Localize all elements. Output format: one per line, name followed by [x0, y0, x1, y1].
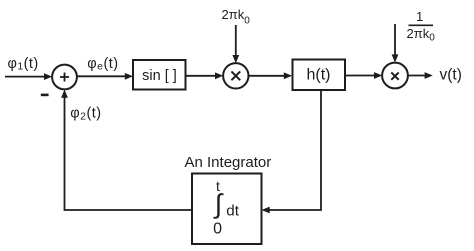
svg-text:2πk0: 2πk0 — [407, 26, 436, 43]
svg-text:v(t): v(t) — [440, 67, 462, 84]
svg-text:An Integrator: An Integrator — [185, 154, 272, 171]
svg-text:1: 1 — [416, 9, 423, 24]
svg-text:sin [ ]: sin [ ] — [142, 68, 177, 84]
svg-text:2πk0: 2πk0 — [222, 7, 251, 27]
svg-text:h(t): h(t) — [307, 67, 331, 84]
svg-text:φ1(t): φ1(t) — [8, 56, 39, 73]
svg-text:dt: dt — [226, 202, 239, 219]
svg-text:φe(t): φe(t) — [87, 56, 118, 73]
svg-text:φ2(t): φ2(t) — [70, 106, 101, 123]
svg-text:∫: ∫ — [213, 189, 224, 219]
svg-text:0: 0 — [213, 220, 222, 237]
